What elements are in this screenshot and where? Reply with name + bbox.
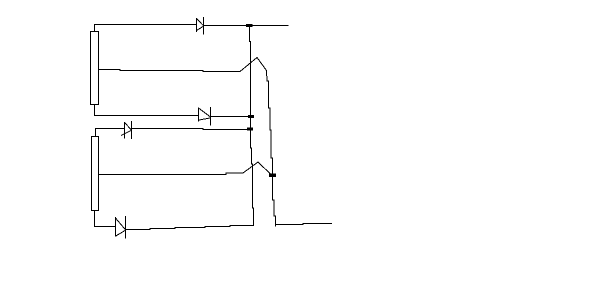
wire — [95, 25, 197, 32]
wire — [204, 25, 248, 27]
diode D2 — [199, 107, 211, 126]
wire — [99, 173, 244, 175]
wire — [243, 162, 271, 175]
winding W1 — [91, 32, 99, 105]
node C — [247, 128, 253, 131]
node B — [248, 115, 254, 118]
node D — [269, 174, 276, 178]
winding W2 — [92, 137, 99, 211]
wire — [132, 129, 249, 130]
wire — [240, 58, 267, 72]
wire — [273, 177, 276, 227]
wire — [211, 116, 250, 118]
wire — [95, 104, 199, 116]
wire — [99, 70, 241, 72]
wire — [126, 224, 254, 230]
wire — [96, 129, 125, 137]
wire — [95, 211, 116, 227]
wire — [250, 27, 254, 226]
wire — [252, 25, 289, 27]
node A — [246, 24, 253, 27]
wire — [267, 71, 273, 175]
diode D3 — [121, 121, 132, 139]
wire — [275, 224, 332, 225]
diode D4 — [116, 216, 126, 239]
diode D1 — [197, 17, 204, 35]
